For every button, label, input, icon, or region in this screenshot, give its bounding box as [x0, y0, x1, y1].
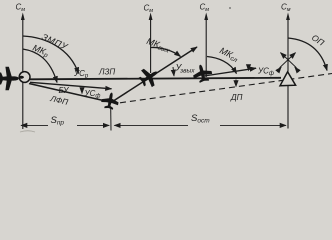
arrowhead СМ2	[149, 13, 153, 21]
arc МКвых	[151, 47, 181, 56]
meridian line СМ4	[287, 19, 289, 72]
arrowhead СМ3	[204, 13, 208, 21]
arrowhead СМ1	[21, 13, 25, 21]
dimension line Sост left	[114, 124, 188, 126]
ЛЗП track line	[30, 78, 281, 80]
pencil smudge	[20, 131, 35, 132]
ЛФП actual track line	[29, 84, 112, 103]
svg-text:ЛЗП: ЛЗП	[98, 68, 115, 77]
meridian line СМ1	[22, 19, 24, 129]
КПМ triangle	[280, 72, 296, 86]
angle marker ДП	[235, 80, 237, 87]
meridian segment below КПМ	[287, 86, 289, 129]
aircraft A1 nose inside circle	[19, 76, 24, 79]
dimension line Sпр left	[21, 124, 48, 126]
paper speck	[229, 7, 231, 9]
arrowhead СМ4	[286, 13, 290, 21]
dimension line Sпр right	[77, 124, 109, 126]
meridian line СМ2	[150, 19, 152, 73]
svg-text:ДП: ДП	[230, 93, 243, 102]
aircraft A3 on ЛЗП	[136, 64, 163, 91]
meridian line СМ3	[205, 19, 207, 77]
svg-text:БУ: БУ	[59, 86, 70, 95]
aircraft A1	[0, 67, 19, 90]
dimension line Sост right	[220, 124, 286, 126]
exit line to ЛЗП	[111, 47, 197, 103]
arc ОП	[288, 38, 327, 71]
turn cross symbol	[278, 53, 297, 71]
heading vector МКр	[30, 82, 112, 89]
angle marker УСф at КПМ	[248, 66, 250, 71]
aircraft A4	[191, 62, 214, 84]
angle marker УСф	[81, 89, 83, 94]
departure circle ИПМ	[19, 72, 30, 83]
angle marker УЗвых	[173, 67, 174, 76]
aircraft A2 at turn point	[100, 91, 120, 111]
arc ЗМПУ	[23, 36, 79, 74]
heading vector МКсл direction	[204, 68, 256, 76]
arc МКсл	[207, 57, 237, 74]
arc МКр	[23, 49, 57, 83]
dimension tick at turn point	[110, 109, 112, 131]
dashed direct line to КПМ	[120, 74, 332, 103]
